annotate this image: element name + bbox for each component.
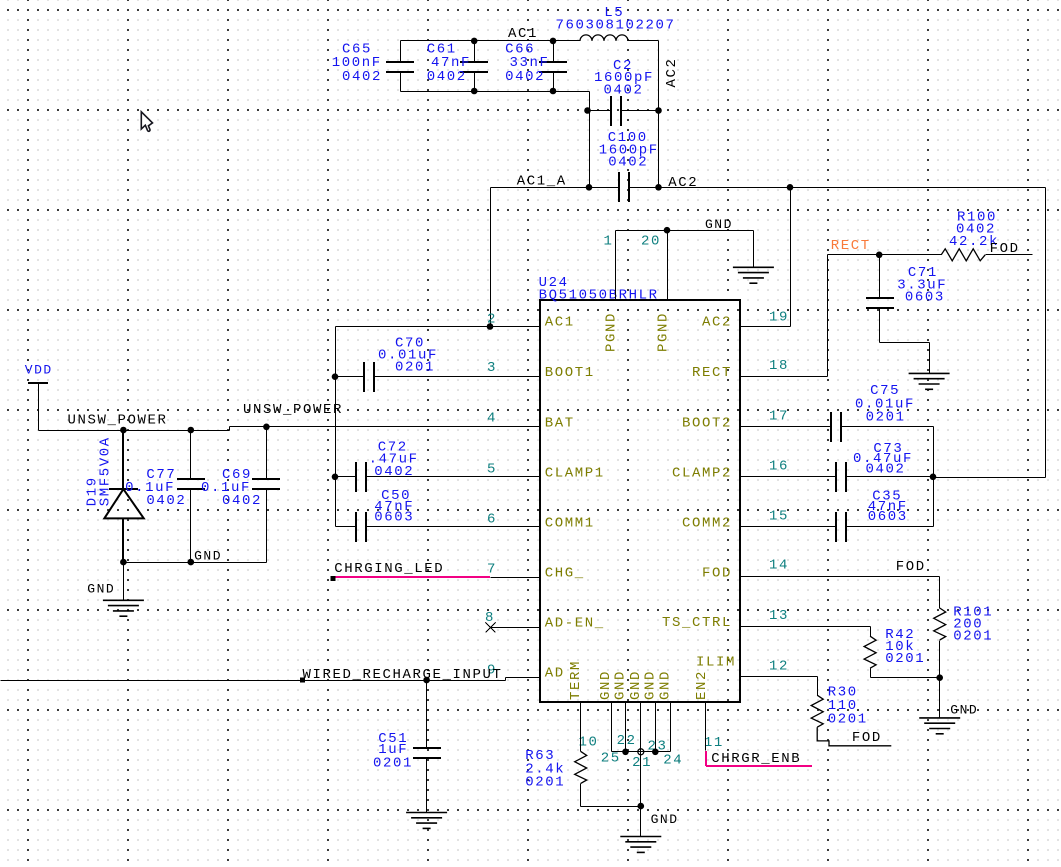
pin 19 wire AC2	[741, 326, 791, 328]
wire GND net top	[616, 230, 754, 232]
svg-text:RECT: RECT	[692, 365, 732, 381]
svg-text:GND: GND	[651, 812, 679, 827]
svg-text:CLAMP2: CLAMP2	[672, 465, 732, 481]
wire RECT to R100	[828, 254, 942, 256]
svg-text:VDD: VDD	[25, 363, 53, 378]
capacitor C66	[553, 41, 555, 63]
svg-text:COMM2: COMM2	[682, 515, 732, 531]
wire FOD down to R101	[939, 577, 941, 609]
svg-text:16: 16	[769, 458, 789, 474]
wire UNSW_POWER	[39, 430, 230, 432]
pin 2 wire AC1	[336, 326, 541, 328]
svg-text:3: 3	[487, 360, 497, 376]
svg-text:GND: GND	[658, 670, 674, 700]
svg-text:0402: 0402	[342, 69, 382, 85]
svg-text:SMF5V0A: SMF5V0A	[97, 436, 113, 506]
svg-text:0402: 0402	[427, 69, 467, 85]
svg-text:0402: 0402	[604, 82, 644, 98]
wire D19 to ground	[123, 563, 125, 601]
wire from bottom rail down to C2 node	[589, 92, 591, 188]
wire junction to ground	[939, 678, 941, 718]
wire AC1 top rail	[401, 40, 554, 42]
wire gnd net under D19	[124, 562, 267, 564]
svg-text:6: 6	[487, 512, 497, 528]
svg-text:GND: GND	[705, 217, 733, 232]
pin 20 wire	[667, 231, 669, 301]
svg-text:UNSW_POWER: UNSW_POWER	[68, 413, 168, 429]
op-amp U24 BQ51050BRHLR IC body	[540, 300, 740, 702]
svg-text:AD-EN_: AD-EN_	[545, 616, 605, 632]
svg-text:0201: 0201	[395, 360, 435, 376]
junction dots UNSW_POWER	[120, 427, 127, 434]
svg-text:0201: 0201	[953, 629, 993, 645]
svg-text:15: 15	[769, 508, 789, 524]
svg-text:BOOT2: BOOT2	[682, 415, 732, 431]
wire GND bus bottom	[612, 751, 671, 753]
wire AC1_A down to pin 2	[490, 188, 492, 327]
capacitor C69	[266, 427, 268, 480]
svg-text:AC1_A: AC1_A	[517, 173, 567, 189]
svg-text:BQ51050BRHLR: BQ51050BRHLR	[539, 287, 659, 303]
svg-text:GND: GND	[194, 549, 222, 564]
svg-text:24: 24	[663, 753, 683, 769]
svg-text:19: 19	[769, 309, 789, 325]
svg-text:FOD: FOD	[990, 241, 1020, 257]
wire center GND down	[640, 752, 642, 807]
wire AC1 bottom rail	[401, 91, 590, 93]
wire AC2 horizontal to right edge loop	[630, 187, 1046, 189]
capacitor C75	[741, 426, 832, 428]
svg-text:0603: 0603	[374, 510, 414, 526]
wire CHRGR_ENB pink	[705, 751, 707, 766]
capacitor C71	[879, 255, 881, 298]
wire C71 to ground	[880, 342, 930, 344]
svg-text:22: 22	[617, 733, 637, 749]
capacitor C65	[400, 41, 402, 63]
wire CHRGING_LED pink	[333, 576, 490, 578]
bottom GND pin wires	[611, 703, 613, 752]
capacitor C51	[426, 681, 428, 749]
resistor R42	[864, 636, 876, 668]
svg-text:1: 1	[604, 234, 614, 250]
resistor R63	[575, 751, 587, 783]
svg-text:14: 14	[769, 558, 789, 574]
svg-text:20: 20	[641, 234, 661, 250]
pin 11 EN2 wire	[705, 703, 707, 751]
wire AC1_A horizontal	[491, 187, 620, 189]
ground symbol bottom	[620, 837, 661, 853]
svg-text:UNSW_POWER: UNSW_POWER	[243, 402, 343, 418]
svg-text:COMM1: COMM1	[545, 515, 595, 531]
svg-text:AD: AD	[545, 666, 565, 682]
resistor R101	[934, 608, 946, 640]
mouse cursor	[141, 112, 152, 132]
wire CHRGING_LED black part to pin 7	[491, 577, 541, 579]
svg-text:CHRGING_LED: CHRGING_LED	[334, 561, 444, 577]
ground symbol under C51	[406, 813, 447, 829]
capacitor C70	[336, 376, 365, 378]
capacitor C50	[336, 526, 357, 528]
svg-text:0201: 0201	[373, 756, 413, 772]
svg-text:21: 21	[632, 755, 652, 771]
capacitor C72	[336, 476, 357, 478]
svg-text:0603: 0603	[868, 509, 908, 525]
svg-text:12: 12	[769, 659, 789, 675]
wire right caps vertical	[933, 427, 935, 527]
svg-text:0402: 0402	[505, 69, 545, 85]
capacitor C61	[474, 41, 476, 63]
svg-text:0402: 0402	[866, 461, 906, 477]
svg-text:0402: 0402	[146, 493, 186, 509]
svg-text:AC2: AC2	[702, 315, 732, 331]
svg-text:TERM: TERM	[568, 660, 584, 700]
svg-text:GND: GND	[950, 703, 978, 718]
svg-text:18: 18	[769, 358, 789, 374]
wire right edge loop bottom to C73 node	[934, 477, 1046, 479]
svg-text:BOOT1: BOOT1	[545, 365, 595, 381]
svg-text:FOD: FOD	[896, 559, 926, 575]
pin 1 wire	[615, 231, 617, 301]
diode D19 SMF5V0A	[122, 430, 124, 489]
svg-text:EN2: EN2	[694, 670, 710, 700]
wire R100 to FOD stub	[986, 254, 1033, 256]
svg-text:0201: 0201	[828, 712, 868, 728]
junction dots C2	[584, 107, 591, 114]
pin 10 TERM wire	[580, 703, 582, 752]
pin 14 wire FOD	[741, 576, 940, 578]
svg-text:17: 17	[769, 408, 789, 424]
svg-text:760308102207: 760308102207	[556, 18, 676, 34]
svg-text:AC1: AC1	[545, 315, 575, 331]
svg-text:FOD: FOD	[852, 730, 882, 746]
junction dots on AC2 wire	[586, 184, 593, 191]
svg-text:BAT: BAT	[545, 415, 575, 431]
svg-text:GND: GND	[643, 670, 659, 700]
svg-text:AC2: AC2	[664, 57, 680, 87]
wire left AC1 rail	[335, 327, 337, 527]
svg-text:GND: GND	[613, 670, 629, 700]
svg-text:0402: 0402	[608, 155, 648, 171]
svg-text:ILIM: ILIM	[696, 654, 736, 670]
svg-text:TS_CTRL: TS_CTRL	[662, 615, 732, 631]
svg-text:0603: 0603	[905, 290, 945, 306]
svg-text:PGND: PGND	[656, 312, 672, 352]
resistor R30	[811, 695, 823, 727]
svg-text:0201: 0201	[866, 410, 906, 426]
svg-text:11: 11	[704, 735, 724, 751]
pin 13 wire TS_CTRL	[741, 626, 871, 628]
svg-text:CLAMP1: CLAMP1	[545, 465, 605, 481]
capacitor C35	[741, 526, 837, 528]
capacitor C100	[618, 172, 620, 202]
no-connect X on pin 8	[491, 627, 541, 629]
junction dots on AC1 rails	[471, 38, 478, 45]
wire L5 right down to AC2 node	[658, 41, 660, 188]
wire WIRED_RECHARGE_INPUT	[1, 680, 506, 682]
svg-text:AC1: AC1	[508, 26, 538, 42]
svg-text:13: 13	[769, 608, 789, 624]
svg-text:0201: 0201	[525, 775, 565, 791]
pin 18 wire RECT	[741, 376, 828, 378]
svg-text:FOD: FOD	[702, 566, 732, 582]
resistor R100	[941, 249, 985, 261]
svg-text:CHG_: CHG_	[545, 566, 585, 582]
wire R63 bottom to center	[581, 806, 641, 808]
capacitor C2	[588, 110, 612, 112]
inductor L5	[554, 40, 581, 42]
svg-text:0402: 0402	[374, 464, 414, 480]
svg-text:5: 5	[487, 462, 497, 478]
ground symbol top	[733, 267, 774, 283]
svg-text:0402: 0402	[222, 493, 262, 509]
capacitor C73	[741, 476, 837, 478]
svg-text:CHRGR_ENB: CHRGR_ENB	[711, 751, 801, 767]
svg-text:PGND: PGND	[604, 312, 620, 352]
wire R42 to R101 junction	[871, 677, 940, 679]
svg-text:4: 4	[487, 411, 497, 427]
svg-text:RECT: RECT	[831, 238, 871, 254]
pin 12 wire ILIM	[741, 676, 818, 678]
ground symbol right	[919, 718, 960, 734]
svg-text:AC2: AC2	[668, 175, 698, 191]
ground symbol C71	[909, 373, 950, 389]
capacitor C77	[190, 431, 192, 480]
svg-text:25: 25	[601, 751, 621, 767]
svg-text:7: 7	[487, 562, 497, 578]
svg-text:0201: 0201	[885, 651, 925, 667]
svg-text:GND: GND	[87, 582, 115, 597]
wire right edge loop down	[1045, 188, 1047, 478]
ground symbol left	[103, 600, 144, 616]
svg-text:10: 10	[579, 735, 599, 751]
